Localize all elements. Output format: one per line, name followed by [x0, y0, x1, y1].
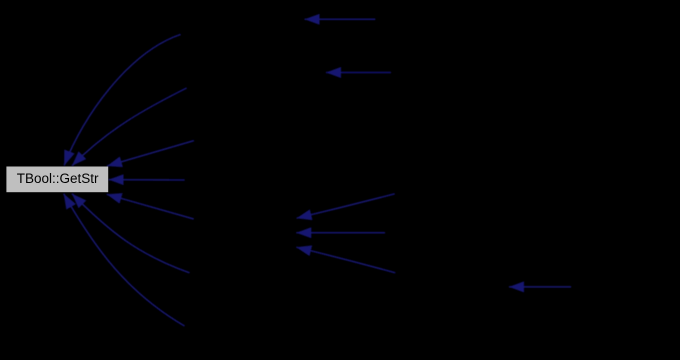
- wire edge F caller6 to TBool::GetStr: [72, 194, 190, 273]
- wire edge A caller1 to TBool::GetStr: [64, 34, 180, 165]
- wire edge T2 top arrow: [326, 72, 391, 74]
- wire edge E caller5 to TBool::GetStr: [107, 194, 194, 219]
- wire edge R1 right arrow: [509, 286, 571, 288]
- svg-text:TBool::GetStr: TBool::GetStr: [17, 171, 99, 186]
- wire edge T1 top arrow: [305, 18, 376, 20]
- wire edge G caller7 to TBool::GetStr: [64, 194, 185, 326]
- wire edge M1 into middle node: [297, 194, 395, 218]
- wire edge M2 into middle node: [296, 232, 385, 234]
- wire edge C caller3 to TBool::GetStr: [107, 141, 194, 166]
- wire edge D caller4 to TBool::GetStr: [109, 179, 185, 181]
- wire edge B caller2 to TBool::GetStr: [72, 88, 187, 166]
- wire edge M3 into middle node: [296, 247, 395, 273]
- node TBool::GetStr: [6, 167, 108, 193]
